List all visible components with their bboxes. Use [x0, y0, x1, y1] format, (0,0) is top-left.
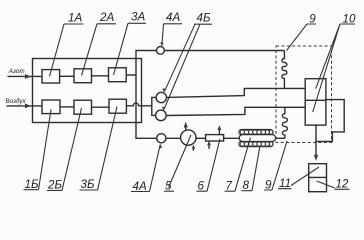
svg-text:2А: 2А — [99, 11, 114, 24]
svg-text:12: 12 — [336, 178, 349, 191]
svg-text:6: 6 — [198, 180, 205, 193]
svg-text:4Б: 4Б — [197, 11, 211, 24]
svg-text:7: 7 — [226, 180, 233, 193]
svg-text:3А: 3А — [131, 11, 145, 24]
svg-text:4А: 4А — [166, 11, 180, 24]
svg-text:Азот: Азот — [8, 68, 25, 75]
svg-text:1Б: 1Б — [25, 178, 39, 191]
svg-text:4А: 4А — [133, 180, 147, 193]
svg-text:2Б: 2Б — [47, 179, 62, 192]
svg-text:9: 9 — [265, 178, 272, 191]
svg-text:11: 11 — [279, 177, 291, 190]
svg-text:8: 8 — [243, 179, 250, 192]
svg-text:10: 10 — [343, 13, 356, 26]
svg-text:9: 9 — [309, 13, 316, 26]
svg-text:1А: 1А — [68, 11, 82, 24]
svg-text:3Б: 3Б — [81, 178, 95, 191]
svg-text:5: 5 — [165, 180, 172, 193]
svg-text:Воздух: Воздух — [6, 97, 27, 105]
